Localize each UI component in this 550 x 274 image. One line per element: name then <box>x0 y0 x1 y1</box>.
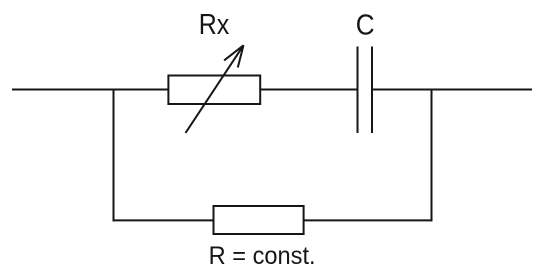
svg-text:C: C <box>356 8 375 41</box>
svg-text:R = const.: R = const. <box>209 243 316 271</box>
svg-text:Rx: Rx <box>199 8 230 40</box>
